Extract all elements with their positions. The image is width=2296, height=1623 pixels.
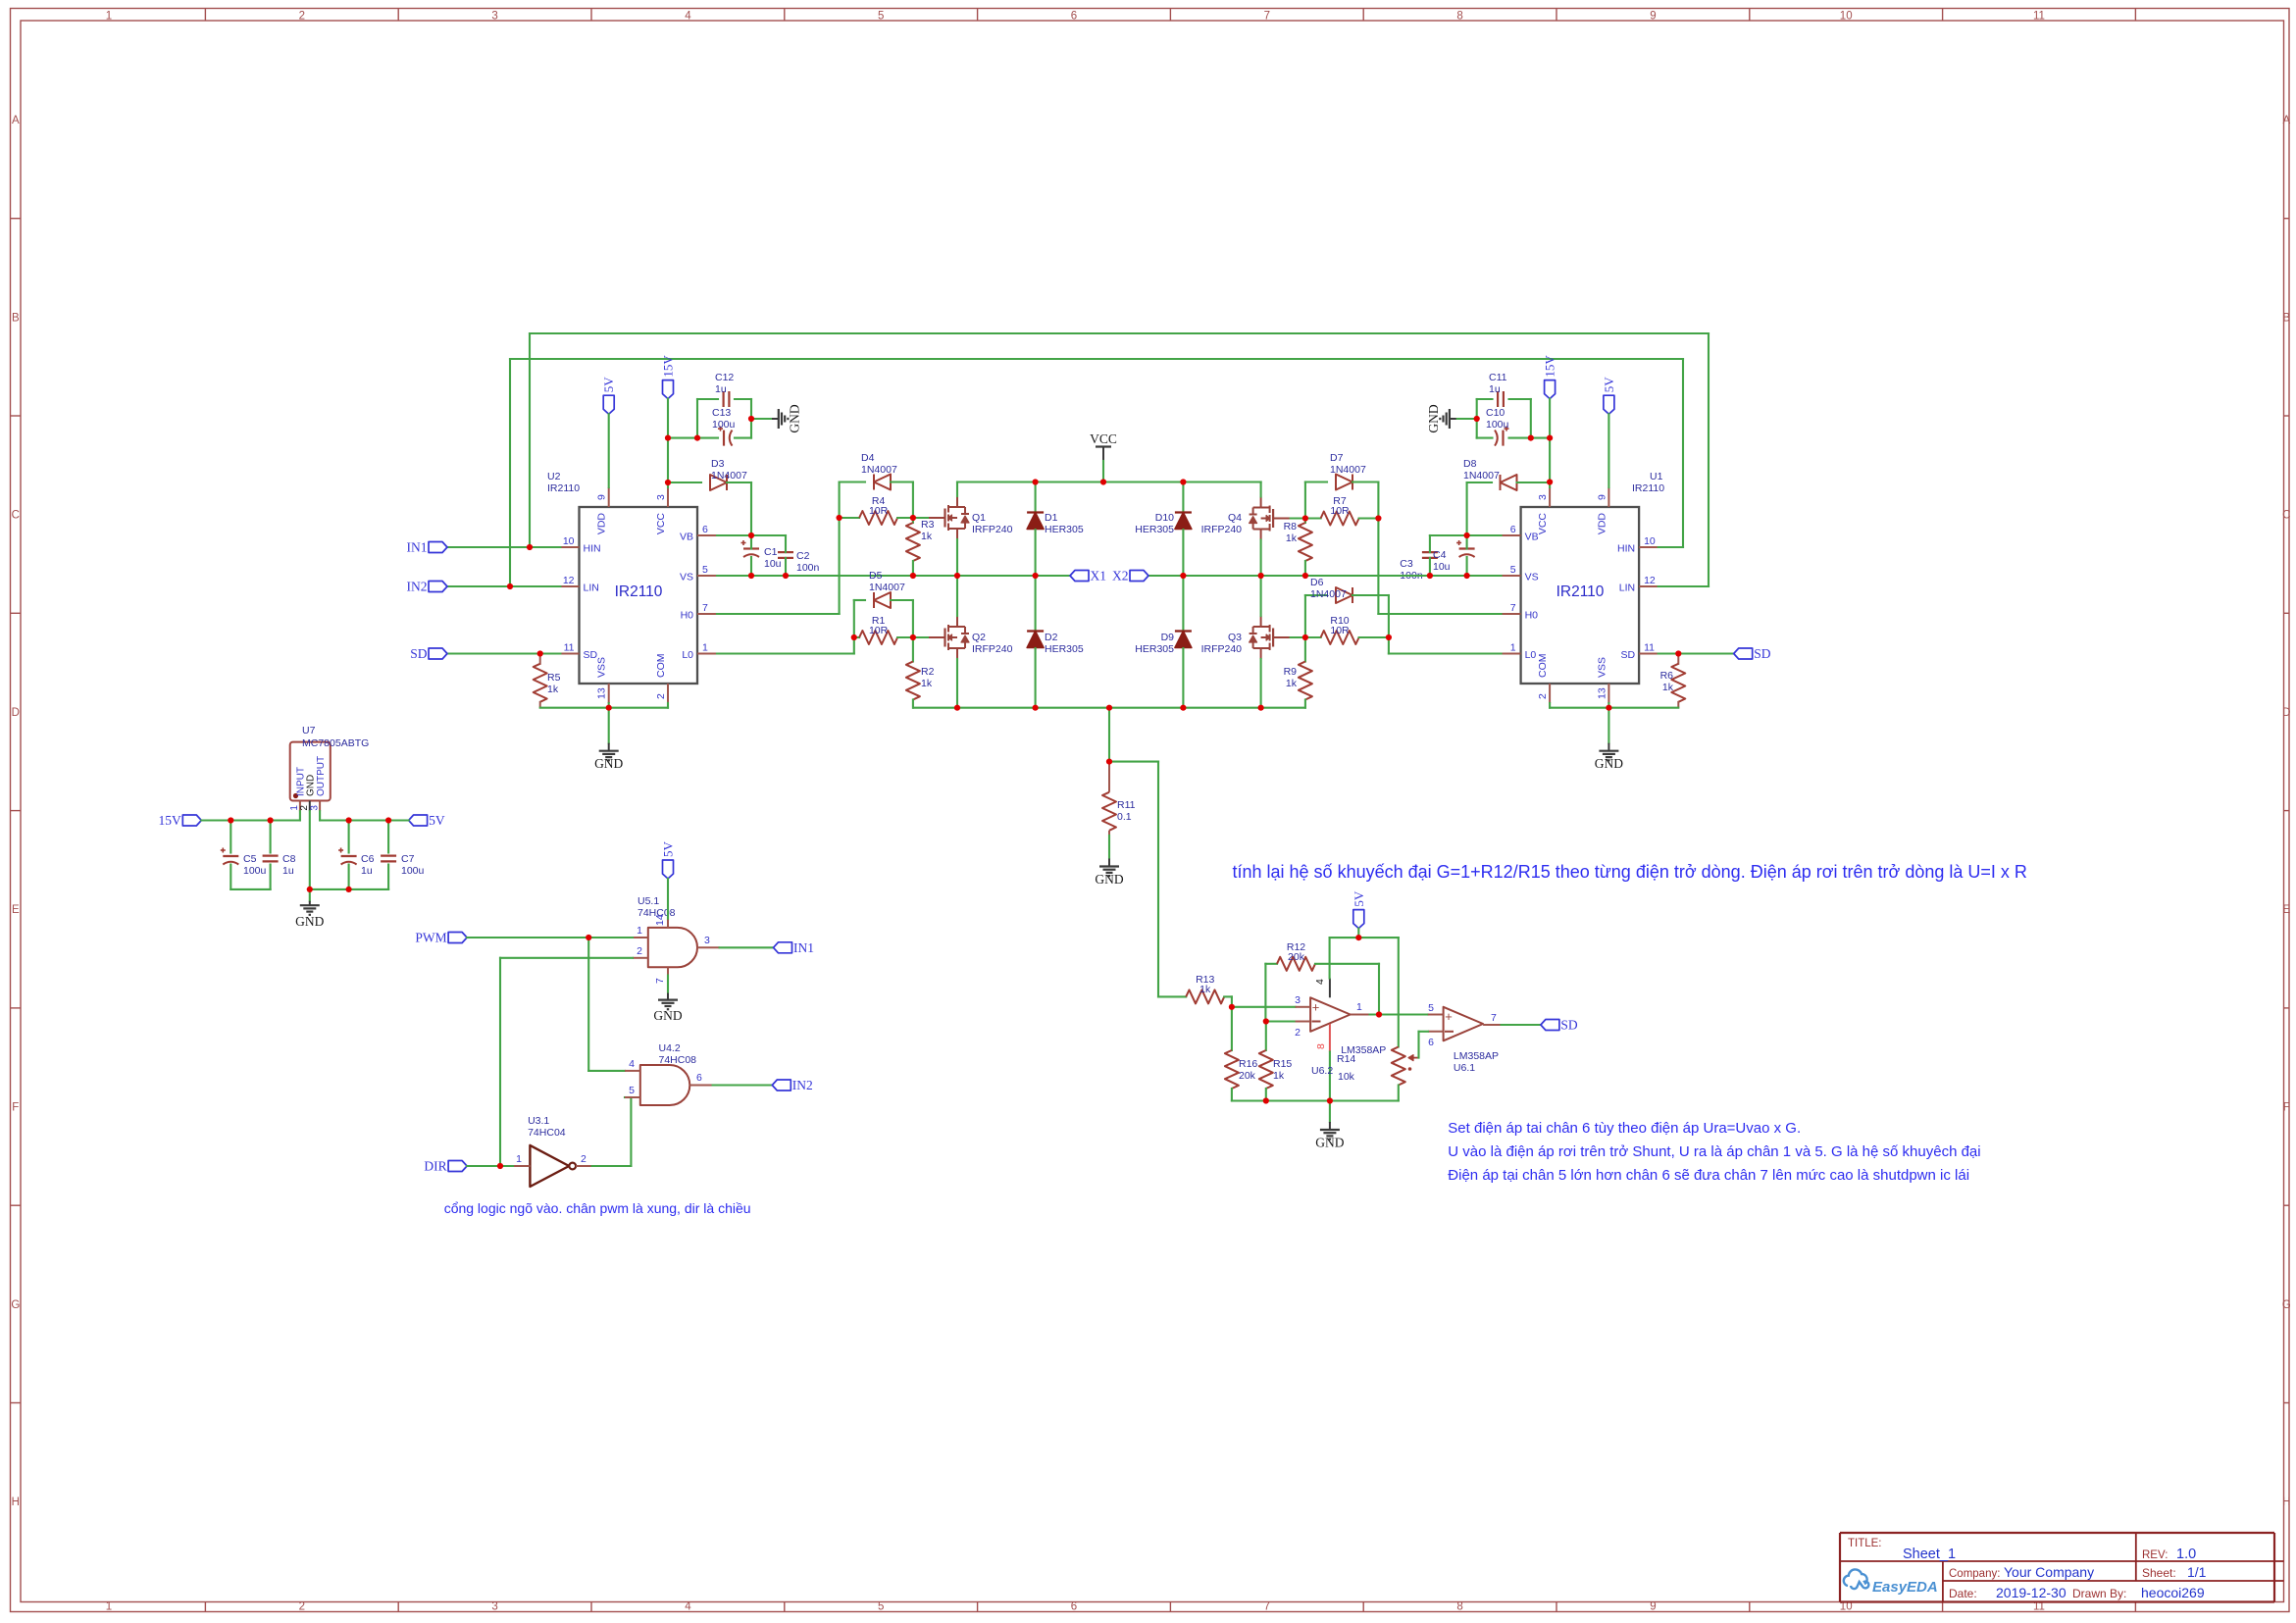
svg-text:1u: 1u — [361, 865, 373, 877]
svg-text:3: 3 — [309, 805, 320, 811]
svg-text:IR2110: IR2110 — [1632, 482, 1664, 494]
svg-text:7: 7 — [1510, 602, 1516, 614]
svg-text:20k: 20k — [1288, 951, 1305, 963]
svg-text:LIN: LIN — [1619, 583, 1635, 594]
svg-text:1k: 1k — [547, 684, 559, 695]
svg-text:MC7805ABTG: MC7805ABTG — [302, 737, 369, 749]
svg-text:5V: 5V — [1602, 377, 1616, 393]
svg-text:A: A — [2282, 115, 2290, 127]
svg-text:10R: 10R — [1330, 625, 1350, 636]
svg-text:PWM: PWM — [415, 931, 446, 945]
svg-text:R2: R2 — [921, 666, 935, 678]
svg-text:15V: 15V — [159, 813, 182, 828]
svg-text:1u: 1u — [1489, 383, 1501, 395]
svg-text:6: 6 — [1071, 1601, 1077, 1613]
svg-text:VCC: VCC — [1537, 513, 1549, 535]
svg-text:Company:: Company: — [1949, 1568, 2000, 1580]
svg-text:Sheet:: Sheet: — [2142, 1566, 2176, 1580]
svg-text:R9: R9 — [1284, 666, 1298, 678]
svg-text:11: 11 — [2033, 11, 2045, 23]
svg-text:10u: 10u — [1433, 561, 1451, 573]
svg-text:2: 2 — [581, 1153, 587, 1165]
svg-text:9: 9 — [1650, 1601, 1656, 1613]
svg-text:H: H — [12, 1496, 20, 1508]
svg-text:R6: R6 — [1660, 670, 1674, 682]
svg-text:10: 10 — [1644, 535, 1656, 547]
svg-text:R14: R14 — [1337, 1053, 1355, 1065]
svg-text:3: 3 — [491, 1601, 497, 1613]
svg-text:10R: 10R — [1330, 505, 1350, 517]
svg-text:6: 6 — [702, 524, 708, 535]
svg-text:3: 3 — [704, 935, 710, 946]
svg-text:C12: C12 — [715, 372, 734, 383]
svg-text:74HC08: 74HC08 — [659, 1054, 697, 1066]
svg-text:SD: SD — [1754, 646, 1771, 661]
svg-text:2: 2 — [299, 11, 305, 23]
svg-text:D10: D10 — [1155, 512, 1174, 524]
svg-text:tính lại hệ số khuyếch đại G=1: tính lại hệ số khuyếch đại G=1+R12/R15 t… — [1233, 862, 2027, 882]
svg-text:2: 2 — [655, 693, 667, 699]
svg-text:8: 8 — [1456, 11, 1462, 23]
svg-text:GND: GND — [1595, 756, 1623, 771]
svg-text:IRFP240: IRFP240 — [1201, 524, 1243, 535]
svg-text:+: + — [1312, 1000, 1320, 1015]
svg-text:IR2110: IR2110 — [615, 583, 663, 600]
svg-text:VSS: VSS — [596, 657, 608, 678]
svg-text:GND: GND — [1315, 1136, 1344, 1150]
svg-text:IRFP240: IRFP240 — [972, 524, 1013, 535]
svg-text:1k: 1k — [921, 678, 933, 689]
svg-text:U3.1: U3.1 — [528, 1115, 549, 1127]
svg-text:GND: GND — [653, 1008, 682, 1023]
svg-text:VCC: VCC — [1090, 431, 1117, 446]
svg-text:7: 7 — [1491, 1012, 1497, 1024]
svg-text:IR2110: IR2110 — [1556, 583, 1605, 600]
svg-text:1/1: 1/1 — [2187, 1564, 2207, 1580]
svg-text:10R: 10R — [869, 505, 889, 517]
svg-text:D1: D1 — [1045, 512, 1058, 524]
svg-text:C11: C11 — [1489, 372, 1507, 383]
svg-text:1N4007: 1N4007 — [1310, 588, 1347, 600]
svg-text:Điện áp tại chân 5 lớn hơn châ: Điện áp tại chân 5 lớn hơn chân 6 sẽ đưa… — [1448, 1167, 1969, 1184]
svg-text:VDD: VDD — [596, 513, 608, 535]
svg-text:0.1: 0.1 — [1117, 811, 1132, 823]
svg-text:15V: 15V — [661, 355, 676, 378]
svg-text:IN1: IN1 — [407, 540, 428, 555]
svg-text:4: 4 — [1314, 979, 1326, 985]
svg-text:C2: C2 — [796, 550, 810, 562]
svg-text:C4: C4 — [1433, 549, 1447, 561]
svg-text:R15: R15 — [1273, 1058, 1292, 1070]
svg-text:+: + — [1445, 1009, 1453, 1024]
svg-text:IRFP240: IRFP240 — [972, 643, 1013, 655]
svg-text:6: 6 — [1071, 11, 1077, 23]
svg-text:74HC04: 74HC04 — [528, 1127, 566, 1139]
svg-text:Drawn By:: Drawn By: — [2072, 1587, 2126, 1600]
svg-text:D2: D2 — [1045, 632, 1058, 643]
svg-text:HIN: HIN — [584, 543, 601, 555]
svg-text:C3: C3 — [1400, 558, 1413, 570]
svg-text:C5: C5 — [243, 853, 257, 865]
svg-text:IN2: IN2 — [407, 580, 428, 594]
svg-text:1N4007: 1N4007 — [1330, 464, 1366, 476]
svg-text:Set điện áp tai chân 6 tùy the: Set điện áp tai chân 6 tùy theo điện áp … — [1448, 1120, 1801, 1137]
svg-text:11: 11 — [564, 642, 575, 654]
svg-text:VDD: VDD — [1596, 513, 1607, 535]
svg-text:6: 6 — [696, 1072, 702, 1084]
svg-text:OUTPUT: OUTPUT — [316, 756, 327, 796]
svg-text:GND: GND — [1426, 404, 1441, 432]
svg-text:C: C — [12, 510, 20, 522]
svg-text:1N4007: 1N4007 — [861, 464, 897, 476]
svg-text:U5.1: U5.1 — [638, 895, 659, 907]
svg-text:1N4007: 1N4007 — [711, 470, 747, 482]
svg-text:9: 9 — [596, 494, 608, 500]
svg-text:SD: SD — [1621, 649, 1636, 661]
svg-text:5: 5 — [629, 1085, 635, 1096]
svg-text:IN1: IN1 — [793, 940, 814, 955]
svg-text:1k: 1k — [1286, 678, 1298, 689]
svg-text:SD: SD — [410, 646, 428, 661]
svg-text:1: 1 — [516, 1153, 522, 1165]
svg-text:1u: 1u — [282, 865, 294, 877]
svg-text:15V: 15V — [1543, 355, 1557, 378]
svg-text:8: 8 — [1315, 1043, 1327, 1049]
svg-text:D4: D4 — [861, 452, 875, 464]
svg-text:2: 2 — [299, 1601, 305, 1613]
svg-text:GND: GND — [295, 914, 324, 929]
svg-text:9: 9 — [1596, 494, 1607, 500]
svg-text:R11: R11 — [1117, 799, 1136, 811]
svg-text:2: 2 — [1295, 1027, 1301, 1039]
svg-text:7: 7 — [702, 602, 708, 614]
svg-text:X1: X1 — [1091, 569, 1107, 583]
svg-text:13: 13 — [596, 687, 608, 699]
svg-text:100n: 100n — [796, 562, 820, 574]
svg-text:HER305: HER305 — [1135, 524, 1174, 535]
svg-text:HIN: HIN — [1617, 543, 1635, 555]
svg-text:heocoi269: heocoi269 — [2141, 1585, 2205, 1600]
svg-text:5: 5 — [878, 11, 884, 23]
svg-text:5V: 5V — [429, 813, 445, 828]
svg-text:VS: VS — [1525, 572, 1539, 583]
svg-text:5V: 5V — [601, 377, 616, 393]
svg-text:DIR: DIR — [424, 1159, 446, 1174]
svg-text:VCC: VCC — [655, 513, 667, 535]
svg-text:Q4: Q4 — [1228, 512, 1242, 524]
svg-text:REV:: REV: — [2142, 1549, 2168, 1561]
svg-text:Sheet_1: Sheet_1 — [1903, 1547, 1956, 1562]
svg-text:C10: C10 — [1486, 407, 1505, 419]
svg-text:VSS: VSS — [1596, 657, 1607, 678]
svg-text:4: 4 — [685, 1601, 691, 1613]
svg-text:VB: VB — [680, 532, 693, 543]
svg-text:D9: D9 — [1161, 632, 1175, 643]
svg-text:100u: 100u — [401, 865, 425, 877]
svg-text:H: H — [2282, 1496, 2290, 1508]
svg-text:F: F — [12, 1102, 19, 1114]
svg-text:HER305: HER305 — [1045, 524, 1084, 535]
svg-text:R5: R5 — [547, 672, 561, 684]
svg-text:G: G — [11, 1299, 20, 1311]
svg-text:HER305: HER305 — [1045, 643, 1084, 655]
svg-text:H0: H0 — [1525, 610, 1539, 622]
svg-text:12: 12 — [563, 575, 575, 586]
svg-text:8: 8 — [1456, 1601, 1462, 1613]
svg-text:5: 5 — [1428, 1002, 1434, 1014]
svg-text:1.0: 1.0 — [2176, 1547, 2196, 1562]
svg-text:100u: 100u — [712, 419, 736, 431]
svg-text:1: 1 — [106, 1601, 112, 1613]
svg-text:10R: 10R — [869, 625, 889, 636]
svg-text:C13: C13 — [712, 407, 731, 419]
svg-text:1k: 1k — [1199, 984, 1211, 995]
svg-text:U1: U1 — [1650, 471, 1663, 482]
svg-text:1N4007: 1N4007 — [869, 582, 905, 593]
svg-text:LIN: LIN — [584, 583, 599, 594]
svg-text:X2: X2 — [1112, 569, 1129, 583]
svg-text:D7: D7 — [1330, 452, 1344, 464]
svg-text:U6.1: U6.1 — [1454, 1062, 1475, 1074]
svg-text:10: 10 — [1840, 11, 1853, 23]
svg-text:9: 9 — [1650, 11, 1656, 23]
svg-text:13: 13 — [1596, 687, 1607, 699]
svg-text:H0: H0 — [681, 610, 694, 622]
svg-text:1N4007: 1N4007 — [1463, 470, 1500, 482]
svg-text:R16: R16 — [1239, 1058, 1257, 1070]
svg-text:Q1: Q1 — [972, 512, 986, 524]
svg-text:C: C — [2282, 510, 2290, 522]
svg-text:U7: U7 — [302, 725, 316, 736]
svg-text:C8: C8 — [282, 853, 296, 865]
svg-text:5: 5 — [878, 1601, 884, 1613]
svg-text:D5: D5 — [869, 570, 883, 582]
svg-text:2019-12-30: 2019-12-30 — [1996, 1585, 2066, 1600]
svg-text:F: F — [2283, 1102, 2290, 1114]
svg-text:6: 6 — [1510, 524, 1516, 535]
svg-text:Date:: Date: — [1949, 1587, 1977, 1600]
svg-text:Q3: Q3 — [1228, 632, 1242, 643]
svg-text:1: 1 — [637, 925, 642, 937]
svg-text:Your Company: Your Company — [2004, 1564, 2094, 1580]
svg-text:3: 3 — [655, 494, 667, 500]
svg-text:10k: 10k — [1338, 1071, 1355, 1083]
svg-text:A: A — [12, 115, 20, 127]
svg-text:cổng logic ngõ vào. chân pwm l: cổng logic ngõ vào. chân pwm là xung, di… — [444, 1200, 751, 1216]
svg-text:IRFP240: IRFP240 — [1201, 643, 1243, 655]
svg-text:R3: R3 — [921, 519, 935, 531]
svg-text:1: 1 — [702, 642, 708, 654]
svg-text:12: 12 — [1644, 575, 1656, 586]
svg-text:E: E — [12, 904, 20, 916]
svg-text:GND: GND — [788, 404, 802, 432]
svg-text:VS: VS — [680, 572, 693, 583]
svg-text:SD: SD — [1560, 1018, 1578, 1033]
svg-text:7: 7 — [1264, 11, 1270, 23]
svg-text:100u: 100u — [243, 865, 267, 877]
svg-text:1: 1 — [1356, 1001, 1362, 1013]
svg-text:20k: 20k — [1239, 1070, 1256, 1082]
svg-text:U4.2: U4.2 — [659, 1042, 681, 1054]
svg-text:5V: 5V — [661, 841, 676, 858]
svg-text:10: 10 — [563, 535, 575, 547]
svg-text:D8: D8 — [1463, 458, 1477, 470]
svg-text:C6: C6 — [361, 853, 375, 865]
svg-text:D: D — [12, 707, 20, 719]
svg-text:TITLE:: TITLE: — [1848, 1538, 1882, 1549]
svg-text:D: D — [2282, 707, 2290, 719]
svg-text:3: 3 — [491, 11, 497, 23]
svg-text:U vào là điện áp rơi trên trở: U vào là điện áp rơi trên trở Shunt, U r… — [1448, 1143, 1980, 1160]
svg-text:5V: 5V — [1352, 890, 1366, 907]
svg-text:COM: COM — [655, 654, 667, 679]
svg-text:7: 7 — [1264, 1601, 1270, 1613]
svg-text:E: E — [2282, 904, 2290, 916]
svg-text:B: B — [12, 312, 20, 324]
svg-text:3: 3 — [1295, 994, 1301, 1006]
svg-text:2: 2 — [1537, 693, 1549, 699]
svg-text:HER305: HER305 — [1135, 643, 1174, 655]
svg-text:D3: D3 — [711, 458, 725, 470]
svg-text:11: 11 — [1644, 642, 1655, 654]
svg-text:100u: 100u — [1486, 419, 1509, 431]
svg-text:7: 7 — [654, 978, 666, 984]
svg-text:B: B — [2282, 312, 2290, 324]
svg-text:4: 4 — [685, 11, 691, 23]
svg-text:10u: 10u — [764, 558, 782, 570]
svg-text:1k: 1k — [921, 531, 933, 542]
svg-text:L0: L0 — [1525, 649, 1537, 661]
svg-text:5: 5 — [702, 564, 708, 576]
svg-text:EasyEDA: EasyEDA — [1872, 1579, 1938, 1596]
svg-text:1k: 1k — [1662, 682, 1674, 693]
svg-text:4: 4 — [629, 1058, 635, 1070]
svg-text:2: 2 — [637, 945, 642, 957]
svg-text:GND: GND — [1095, 872, 1123, 887]
svg-text:GND: GND — [594, 756, 623, 771]
svg-text:D6: D6 — [1310, 577, 1324, 588]
svg-text:G: G — [2282, 1299, 2291, 1311]
svg-text:L0: L0 — [682, 649, 693, 661]
svg-text:1: 1 — [1510, 642, 1516, 654]
svg-text:LM358AP: LM358AP — [1454, 1050, 1499, 1062]
svg-text:U6.2: U6.2 — [1311, 1065, 1333, 1077]
svg-text:1u: 1u — [715, 383, 727, 395]
svg-text:1k: 1k — [1286, 533, 1298, 544]
svg-text:COM: COM — [1537, 654, 1549, 679]
svg-text:R8: R8 — [1284, 521, 1298, 533]
svg-text:Q2: Q2 — [972, 632, 986, 643]
svg-text:IR2110: IR2110 — [547, 482, 580, 494]
svg-text:1: 1 — [106, 11, 112, 23]
svg-text:14: 14 — [654, 914, 666, 926]
svg-text:6: 6 — [1428, 1037, 1434, 1048]
svg-text:3: 3 — [1537, 494, 1549, 500]
svg-text:IN2: IN2 — [792, 1078, 813, 1092]
svg-text:1k: 1k — [1273, 1070, 1285, 1082]
svg-text:5: 5 — [1510, 564, 1516, 576]
svg-text:C1: C1 — [764, 546, 778, 558]
svg-text:U2: U2 — [547, 471, 561, 482]
svg-text:C7: C7 — [401, 853, 415, 865]
